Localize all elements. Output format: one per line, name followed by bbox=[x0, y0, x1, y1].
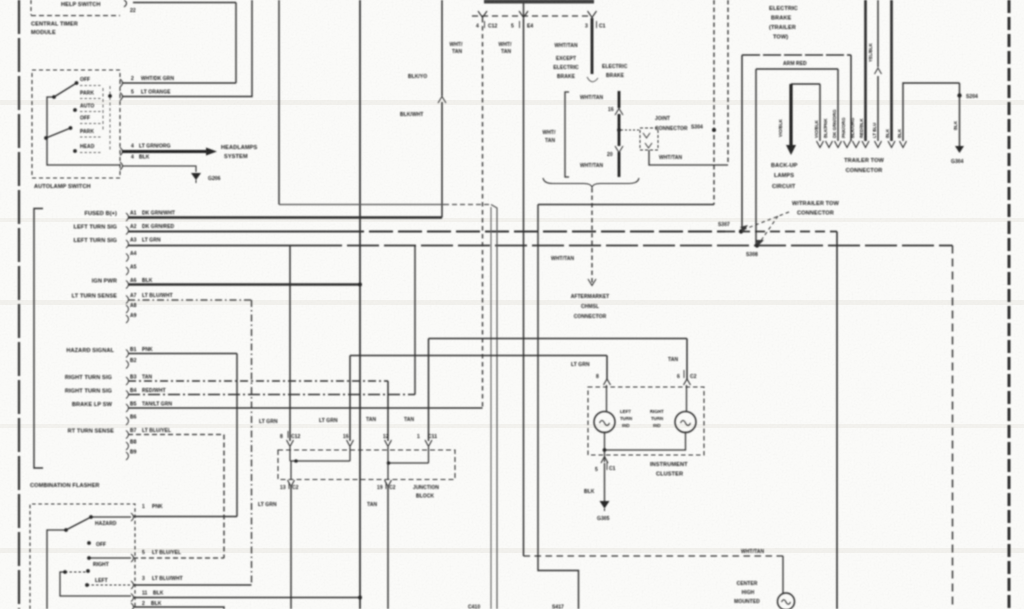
switch arm 1 bbox=[54, 83, 77, 97]
connector chevrons bbox=[478, 11, 487, 18]
ground G206 stem bbox=[195, 180, 197, 183]
splice symbol on x442 bbox=[438, 97, 446, 104]
riser x415 up to A3/S308 bus bbox=[414, 246, 416, 395]
hazard contact wire bbox=[91, 516, 131, 518]
switch pin symbols bbox=[120, 79, 123, 87]
wire 5 LT ORANGE: top edge down x252 and into switch pin 5 bbox=[122, 0, 252, 97]
wire 4 BLK to ground bbox=[122, 166, 196, 172]
wire riser x236 down to switch pin 2 bbox=[235, 3, 237, 84]
label ticks bbox=[287, 431, 289, 438]
switch common L wire bbox=[47, 97, 120, 165]
splice S307 bbox=[739, 229, 743, 233]
switch arm hazard bbox=[66, 517, 91, 530]
right contact wire bbox=[89, 557, 131, 559]
S304 splice dot bbox=[712, 128, 716, 132]
junction block internal dot left bbox=[294, 459, 298, 463]
flasher bracket bbox=[34, 209, 43, 469]
ground G206 bbox=[191, 173, 201, 180]
left contact dotted wire bbox=[87, 584, 131, 586]
lamp drops bbox=[606, 385, 608, 412]
trailer tow connector pin chevrons bbox=[817, 141, 824, 148]
link into electric brake section bbox=[587, 77, 598, 82]
switch arm 2 bbox=[46, 128, 71, 138]
riser x237 down to hazard pin 1 bbox=[236, 354, 238, 517]
splice S308 bbox=[755, 243, 759, 247]
wire A2 bus to S307 bbox=[128, 231, 340, 233]
long BLK vertical x360 bbox=[359, 0, 361, 609]
BLK to ground G305 bbox=[604, 463, 606, 501]
left turn indicator lamp bbox=[594, 412, 615, 433]
connector pin symbols A1-A9 bbox=[126, 213, 129, 221]
riser x482 dashed up to C12 pin 4 bbox=[482, 18, 484, 408]
joint connector output wire to riser x728 bbox=[649, 150, 728, 165]
pivot B lower route to pin 11 bbox=[60, 572, 131, 596]
wire A3 LT GRN bus to S308 and beyond bbox=[128, 245, 310, 247]
dashed wire down right x952 bbox=[952, 246, 954, 609]
headlamps arrow head bbox=[206, 148, 217, 156]
rotated wire color labels bbox=[778, 42, 958, 138]
S204 splice dot bbox=[957, 93, 961, 97]
electric brake bracket bbox=[565, 92, 569, 177]
wire B3 TAN dash-dot bbox=[128, 380, 388, 382]
junction block top chevrons bbox=[287, 440, 294, 447]
wire 2 WHT/DK GRN bbox=[122, 82, 236, 84]
C1 pin 3 thick wire bbox=[591, 18, 594, 74]
dark connector bar at top bbox=[484, 0, 594, 4]
internal bus right bbox=[387, 447, 389, 463]
wire 1 PNK bbox=[133, 516, 237, 518]
junction block internal dot right bbox=[387, 461, 391, 465]
common wire down bbox=[47, 530, 66, 609]
wire A1 FUSED B(+) thick to riser x442 bbox=[128, 216, 442, 218]
wire A7 LT BLU/WHT dashed bbox=[128, 299, 252, 301]
electric brake thick wire with pins 16/20 bbox=[618, 91, 621, 108]
junction dot 11 BLK / x360 bbox=[358, 596, 362, 600]
riser x224 down to hazard wire 5 bbox=[223, 435, 225, 559]
bridge 2 with risers bbox=[756, 68, 838, 70]
wire 4 LT GRN/ORG thick arrow to headlamps bbox=[122, 150, 206, 153]
wires from top edge bbox=[864, 0, 867, 141]
autolamp switch contact dots bbox=[75, 81, 79, 85]
bottom output chevrons bbox=[288, 480, 295, 487]
underbrace of electric brake section bbox=[543, 178, 639, 187]
wire B5 TAN/LT GRN bbox=[128, 407, 483, 409]
back-up arrow head bbox=[786, 145, 796, 155]
riser x442 to top edge with splice bbox=[441, 0, 443, 96]
dashed stem to aftermarket CHMSL connector bbox=[591, 188, 593, 283]
connector pin symbols B1-B9 bbox=[126, 350, 129, 358]
switch position contact strips bbox=[80, 85, 102, 87]
cluster return junction dot bbox=[603, 448, 607, 452]
wire B4 RED/WHT bbox=[128, 394, 415, 396]
autolamp switch dashed box bbox=[32, 70, 120, 178]
hazard switch contact dots bbox=[89, 515, 93, 519]
LT GRN wire to cluster pin 8: corner at x350 bbox=[349, 356, 351, 442]
wire B1 PNK bbox=[128, 353, 237, 355]
ground G305 symbol bbox=[600, 501, 610, 509]
riser x388 into junction pin 12 bbox=[387, 381, 389, 441]
CHMSL lamp (cut at bottom edge) bbox=[778, 593, 795, 609]
switch inner dashed column bbox=[109, 86, 111, 150]
riser x251.5 dashed down to 3 LT BLU/WHT wire bbox=[251, 300, 253, 585]
wire 5 LT BLU/YEL dashed bbox=[133, 557, 224, 559]
x538 down with jog to bottom bbox=[538, 205, 579, 609]
gray wire from x279 top: down, right, down x497 bbox=[278, 0, 280, 205]
riser from A3 bus down to junction block pin 8 bbox=[289, 246, 291, 442]
TAN wire to cluster pin 6: corner at x428.5 bbox=[428, 339, 430, 442]
joint connector dashed box bbox=[640, 128, 658, 150]
wire 11 BLK bbox=[133, 597, 360, 599]
pin 22 of help switch bbox=[124, 0, 127, 7]
wire A6 BLK thick to x360 bbox=[128, 283, 360, 285]
pin symbols on box edge bbox=[131, 513, 134, 521]
riser x728 dashed to top bbox=[727, 0, 729, 165]
E4 pin 5 wire long vertical down to WHT/TAN dashed run bbox=[523, 18, 525, 556]
internal bus left bbox=[289, 447, 291, 461]
wire 2 BLK bbox=[133, 607, 224, 609]
central timer module box bottom (dashed) bbox=[31, 15, 120, 17]
G304 ground bbox=[955, 146, 964, 153]
lamp return bus bbox=[605, 432, 686, 451]
junction dot A6/BLK bus bbox=[358, 283, 362, 287]
junction block dashed outline bbox=[278, 450, 455, 480]
cluster dashed box bbox=[588, 387, 704, 455]
wire from help switch pin to riser bbox=[133, 2, 236, 4]
switch contact dots bbox=[44, 81, 217, 180]
pivot B dashed link bbox=[65, 571, 88, 573]
output wires to bottom edge bbox=[290, 487, 292, 609]
dashed connector row bbox=[472, 15, 592, 17]
S204 branch: pin up, over, splice, BLK to ground bbox=[903, 83, 960, 141]
pin 5 chevron bbox=[601, 457, 608, 464]
label ticks bbox=[484, 21, 486, 28]
riser x714 dashed from top to bus corner bbox=[713, 0, 715, 205]
cluster pin chevrons bbox=[604, 379, 611, 385]
left page border bbox=[18, 0, 20, 609]
hazard switch dashed box (cut at page bottom) bbox=[30, 504, 135, 609]
bridge 3 + thick back-up lamps arrow bbox=[791, 83, 820, 85]
right page border bbox=[1008, 0, 1011, 609]
wire 3 LT BLU/WHT bbox=[133, 584, 252, 586]
W/TRAILER TOW dashed leader lines bbox=[745, 212, 789, 229]
wire B7 LT BLU/YEL dashed bbox=[128, 434, 224, 436]
WHT/TAN dashed run to CHMSL bbox=[524, 555, 784, 557]
wire from bus down right side x837 bbox=[836, 232, 838, 609]
right turn indicator lamp bbox=[675, 412, 696, 433]
bridge 1 dashed with risers bbox=[742, 54, 851, 56]
bus wire y204.5 from x714 to x538 bbox=[538, 204, 714, 206]
